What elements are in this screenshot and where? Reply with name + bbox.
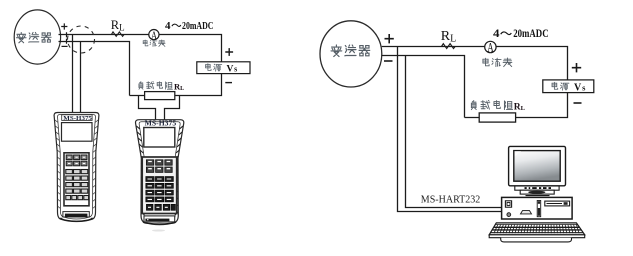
label 负载电阻 RL (right) — [471, 100, 525, 112]
power supply V2 box — [543, 80, 594, 93]
body outline H2 inner — [139, 122, 180, 223]
svg-text:Vs: Vs — [227, 64, 238, 74]
side hatching H2 — [136, 126, 183, 215]
case vertical slot — [537, 201, 541, 217]
monitor bezel — [509, 146, 566, 185]
key slits H2 — [148, 162, 172, 208]
pedestal plate — [526, 195, 550, 197]
wire: drop to computer from - wire — [406, 56, 502, 208]
label ammeter 电流表 (right) — [483, 58, 512, 67]
wire: T1 - going right then down to load wire — [59, 42, 130, 96]
keypad panel H2 — [142, 157, 177, 214]
wire: drop from + wire to handheld H1 left pin — [72, 35, 74, 113]
bottom bar H1 — [63, 212, 89, 217]
monitor base bar with buttons — [515, 186, 559, 190]
svg-text:Vs: Vs — [574, 83, 586, 94]
wire: T1 + to RL and ammeter (top wire) — [59, 34, 149, 36]
keyboard front skirt — [501, 238, 572, 242]
minus label below supply V1 — [225, 82, 232, 84]
bottom arc H1 — [61, 218, 93, 221]
body outline H1 outer — [54, 113, 99, 222]
dashed circle (HART connection zone) — [68, 26, 95, 53]
wire: right stub down to handheld H2 — [165, 96, 180, 120]
transmitter T1 label 变送器 — [16, 32, 51, 42]
body outline H1 inner — [58, 115, 96, 220]
wire: drop to computer from + wire — [398, 47, 502, 212]
label 电源 Vs (left) — [206, 64, 222, 72]
label ammeter 电流表 — [143, 40, 165, 47]
transmitter T1 (circle) — [14, 10, 60, 64]
plus terminal label T2 — [385, 34, 394, 43]
keys H1 block2 — [66, 170, 89, 200]
resistor RL3 zigzag — [442, 44, 456, 49]
transmitter T2 (circle) — [320, 21, 382, 87]
svg-text:20mADC: 20mADC — [182, 20, 214, 32]
wire: T2 + top wire to RL2 ammeter and corner — [382, 47, 568, 80]
keys H2 block1 — [146, 160, 172, 173]
monitor screen — [514, 151, 560, 182]
screen H1 — [62, 123, 93, 142]
resistor RL1 (zigzag) — [111, 32, 124, 36]
ammeter M2 — [485, 41, 496, 52]
screen H2 — [144, 128, 175, 148]
minus label below supply V2 — [574, 102, 582, 104]
screen glare — [515, 151, 522, 156]
bottom arc H2 — [143, 222, 176, 224]
terminal tick marks T1 — [66, 32, 68, 44]
ammeter M1 — [149, 29, 159, 39]
svg-text:4: 4 — [493, 26, 500, 40]
svg-text:4: 4 — [165, 20, 171, 32]
keypad panel H1 — [64, 153, 89, 206]
plus terminal label T1 — [61, 23, 67, 29]
load resistor RL2 box — [145, 92, 175, 100]
wire: supply V2 bottom to load wire — [465, 93, 568, 118]
side hatching H1 — [55, 120, 98, 209]
wire: T2 - to right then down to load wire — [382, 56, 465, 118]
plus label above supply V2 — [572, 63, 581, 72]
wire: drop from - wire to handheld H1 right pin — [80, 42, 82, 113]
case power button (circle) — [507, 213, 511, 217]
label MS-H375 (H1) — [62, 115, 92, 121]
wire: supply V1 bottom down and left to load resistor — [130, 74, 222, 96]
keyboard front rail — [489, 235, 585, 238]
transmitter T2 label 变送器 — [331, 45, 370, 57]
keys H1 block1 — [66, 155, 87, 166]
plus label above supply V1 — [225, 48, 233, 56]
wire: left stub down to handheld H2 — [139, 96, 156, 120]
svg-text:MS-HART232: MS-HART232 — [421, 194, 481, 206]
wire: ammeter to right corner and down to supply — [159, 35, 222, 62]
minus terminal label T2 — [384, 60, 393, 62]
keys H2 block3 — [146, 204, 175, 210]
body outline H2 outer — [136, 120, 184, 225]
label 负载电阻 RL (left) — [139, 81, 184, 92]
case drive door oval — [521, 211, 532, 214]
keys H2 block2 — [146, 177, 174, 202]
load resistor RL4 box — [479, 113, 515, 122]
monitor swivel base — [520, 190, 554, 194]
keyboard body (trapezoid) — [489, 223, 585, 235]
svg-text:MS-H375: MS-H375 — [145, 121, 177, 128]
power supply V1 box — [197, 62, 250, 74]
floppy drive — [545, 201, 570, 206]
svg-text:A: A — [487, 41, 493, 55]
svg-text:MS-H375: MS-H375 — [63, 115, 92, 122]
svg-text:20mADC: 20mADC — [513, 26, 548, 40]
label 电源 Vs (right) — [552, 82, 569, 90]
case box — [502, 197, 572, 219]
shadow below H2 — [152, 230, 165, 232]
key dots H1 — [68, 157, 85, 163]
keyboard key grid — [491, 224, 584, 233]
minus terminal label T1 — [62, 45, 68, 47]
case logo square — [505, 201, 511, 207]
bottom bar H2 — [144, 216, 175, 222]
